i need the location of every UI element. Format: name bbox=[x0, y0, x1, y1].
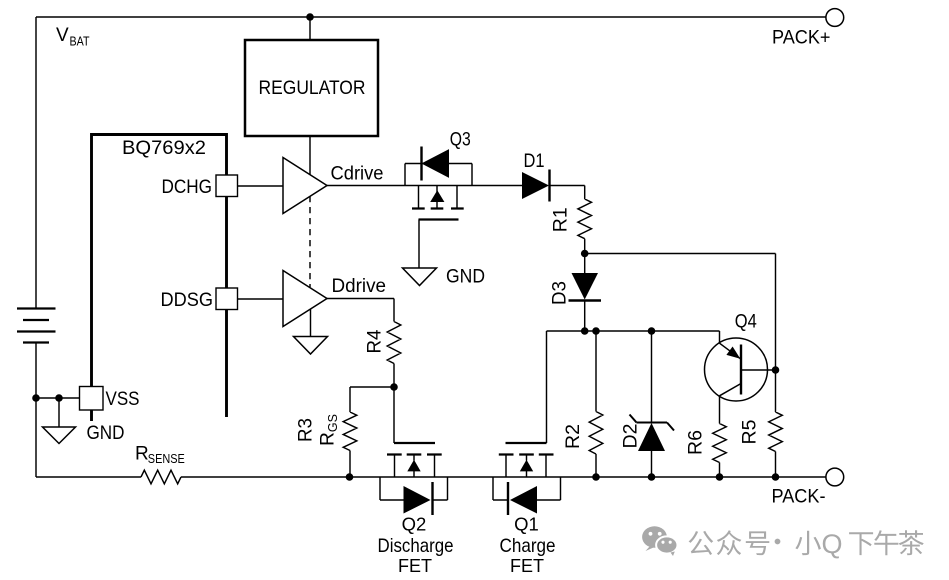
svg-text:DDSG: DDSG bbox=[161, 290, 214, 311]
svg-text:SENSE: SENSE bbox=[148, 452, 185, 466]
svg-text:Q1: Q1 bbox=[514, 514, 539, 535]
svg-text:R1: R1 bbox=[551, 207, 572, 232]
svg-text:D3: D3 bbox=[550, 281, 571, 305]
svg-text:DCHG: DCHG bbox=[162, 177, 213, 198]
svg-text:R2: R2 bbox=[563, 424, 584, 449]
svg-text:Q3: Q3 bbox=[450, 130, 471, 151]
svg-text:PACK-: PACK- bbox=[772, 487, 826, 508]
svg-text:GND: GND bbox=[87, 423, 125, 444]
svg-text:Discharge: Discharge bbox=[378, 535, 454, 557]
svg-text:R5: R5 bbox=[740, 420, 761, 445]
svg-text:FET: FET bbox=[510, 556, 544, 576]
svg-text:V: V bbox=[56, 25, 69, 46]
svg-text:Q2: Q2 bbox=[402, 514, 427, 535]
svg-text:R: R bbox=[135, 444, 149, 465]
svg-text:D2: D2 bbox=[621, 424, 642, 449]
svg-text:R4: R4 bbox=[365, 329, 386, 353]
svg-text:Charge: Charge bbox=[500, 535, 556, 557]
svg-text:Cdrive: Cdrive bbox=[331, 164, 384, 185]
svg-text:GND: GND bbox=[446, 267, 485, 288]
svg-text:PACK+: PACK+ bbox=[772, 28, 831, 49]
svg-text:BAT: BAT bbox=[70, 35, 90, 49]
svg-text:VSS: VSS bbox=[106, 389, 140, 410]
svg-text:Q4: Q4 bbox=[735, 312, 757, 333]
svg-text:BQ769x2: BQ769x2 bbox=[122, 138, 206, 159]
svg-text:Ddrive: Ddrive bbox=[332, 276, 387, 297]
svg-text:REGULATOR: REGULATOR bbox=[259, 78, 366, 99]
svg-text:R3: R3 bbox=[296, 418, 317, 442]
svg-text:R6: R6 bbox=[686, 430, 707, 455]
svg-text:FET: FET bbox=[398, 556, 432, 576]
svg-text:D1: D1 bbox=[524, 151, 545, 172]
svg-text:Q: Q bbox=[822, 529, 843, 559]
